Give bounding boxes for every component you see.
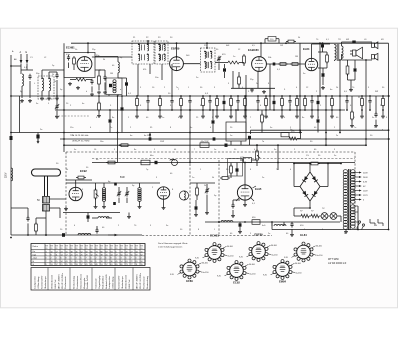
svg-text:EC92: EC92: [80, 169, 87, 173]
svg-text:5k: 5k: [298, 37, 300, 39]
wire bus y132: [11, 132, 302, 134]
svg-text:Wellenbereich: Wellenbereich: [51, 274, 54, 289]
svg-text:14: 14: [61, 255, 63, 257]
svg-text:94: 94: [111, 251, 113, 253]
ladder1 component 11: [236, 95, 239, 111]
capacitor C6: [223, 64, 226, 78]
antenna terminal A: [20, 51, 23, 64]
box R30: [252, 220, 260, 225]
wire mixer out: [92, 57, 132, 70]
svg-text:EL84: EL84: [303, 47, 310, 51]
svg-text:61: 61: [76, 261, 78, 263]
antenna terminal E: [26, 51, 29, 64]
svg-text:2k: 2k: [66, 169, 68, 171]
label 50: [37, 199, 40, 202]
resistor R50: [35, 218, 46, 235]
svg-text:6a-150: 6a-150: [228, 256, 234, 258]
ladder1 component 10: [229, 95, 233, 118]
svg-text:91: 91: [126, 248, 128, 250]
ground FM4: [138, 205, 142, 209]
table upper valve data: [31, 244, 145, 266]
ferrite wires: [46, 199, 66, 228]
ladder1 component 21: [317, 95, 320, 111]
svg-text:EBF89: EBF89: [171, 47, 180, 51]
svg-text:45: 45: [91, 264, 93, 266]
resistor R33: [311, 214, 319, 217]
svg-text:9-35: 9-35: [239, 257, 243, 259]
svg-text:81: 81: [136, 261, 138, 263]
svg-text:72: 72: [131, 261, 133, 263]
tap label 2: [363, 181, 368, 183]
ladder1 component 24: [360, 95, 364, 118]
mains plug: [370, 219, 383, 226]
svg-text:Gegenkopplg.: Gegenkopplg.: [99, 275, 101, 289]
svg-text:240V: 240V: [363, 177, 368, 179]
svg-text:52: 52: [81, 251, 83, 253]
resistor R31: [294, 162, 341, 165]
extra value labels: [14, 37, 388, 235]
ground osc3: [194, 213, 198, 217]
capacitor C4: [90, 79, 93, 92]
osc coil L8: [179, 191, 188, 200]
wire bus y162: [92, 162, 355, 164]
svg-text:1W: 1W: [280, 45, 283, 47]
speaker LS1: [350, 47, 363, 59]
resistor R29: [220, 177, 230, 180]
box R23: [200, 141, 209, 148]
ground osc1: [97, 91, 101, 95]
svg-text:20: 20: [126, 251, 128, 253]
socket EC92: [217, 261, 255, 285]
svg-text:Ratiodetektor: Ratiodetektor: [101, 276, 104, 289]
trimmer C33: [205, 184, 209, 200]
svg-text:66: 66: [91, 251, 93, 253]
svg-text:1M: 1M: [295, 56, 298, 58]
ladder1 component 18: [295, 95, 299, 118]
ferrite coil 2: [43, 205, 50, 212]
svg-text:33: 33: [76, 264, 78, 266]
svg-text:62: 62: [141, 255, 143, 257]
coil L51: [78, 233, 91, 235]
IF can T3: [201, 48, 216, 72]
capacitor C9: [322, 68, 325, 85]
svg-text:220V: 220V: [6, 172, 8, 178]
note right: [328, 259, 347, 265]
wire V4 plate: [312, 44, 331, 58]
svg-text:3W: 3W: [375, 91, 378, 93]
wire v278: [277, 144, 279, 170]
box R40: [281, 131, 295, 137]
wire v270: [269, 64, 271, 110]
trimmer C41: [55, 96, 59, 119]
FM bottom wire: [63, 212, 120, 214]
svg-text:1n: 1n: [162, 117, 164, 119]
svg-text:32: 32: [91, 255, 93, 257]
svg-text:30-100: 30-100: [202, 262, 208, 264]
svg-text:7: 7: [131, 258, 132, 260]
coil L1: [22, 74, 24, 98]
label EL95: [255, 187, 262, 191]
svg-text:9-35: 9-35: [195, 258, 199, 260]
svg-text:EM84: EM84: [279, 280, 287, 284]
svg-text:1k: 1k: [54, 81, 56, 83]
svg-text:Skalenlampe: Skalenlampe: [122, 275, 124, 288]
svg-text:29: 29: [71, 264, 73, 266]
FM box dashed v2: [218, 160, 220, 236]
svg-text:41: 41: [141, 251, 143, 253]
lamp LP2: [330, 213, 337, 220]
svg-text:0: 0: [91, 258, 92, 260]
wire v19: [19, 96, 21, 133]
label 450: [252, 217, 256, 219]
transformer TR1 core: [337, 44, 339, 61]
wire bus y139: [60, 138, 390, 140]
svg-text:91: 91: [71, 248, 73, 250]
svg-text:2k: 2k: [336, 87, 338, 89]
tap label 4: [363, 190, 368, 192]
svg-text:13: 13: [121, 251, 123, 253]
coil L9: [218, 221, 233, 223]
tap label 0: [363, 172, 368, 174]
svg-text:Klangregler: Klangregler: [83, 277, 86, 288]
svg-text:6,3V: 6,3V: [363, 181, 368, 183]
svg-text:9n: 9n: [270, 127, 272, 129]
socket EL84: [284, 233, 322, 262]
capacitor C22: [317, 110, 320, 133]
socket ECH81: [195, 234, 233, 263]
resistor R1: [73, 56, 76, 70]
label block mid: [72, 135, 151, 142]
svg-text:EBF89: EBF89: [254, 233, 263, 237]
wire T3 top: [206, 42, 208, 48]
resistor R41: [289, 130, 301, 140]
svg-text:88: 88: [91, 261, 93, 263]
power transformer TR2: [343, 169, 355, 230]
svg-text:2: 2: [141, 258, 142, 260]
resistor R7: [285, 40, 296, 44]
svg-text:4: 4: [56, 258, 57, 260]
capacitor C3: [67, 55, 70, 68]
IF can T1: [132, 41, 154, 64]
label B1R: [120, 176, 125, 179]
svg-text:20: 20: [71, 255, 73, 257]
svg-text:27: 27: [131, 251, 133, 253]
svg-text:in der Schaltung gemessen: in der Schaltung gemessen: [158, 246, 182, 249]
svg-text:16: 16: [51, 261, 53, 263]
wire ant links: [11, 64, 33, 74]
svg-text:50: 50: [121, 255, 123, 257]
svg-text:70: 70: [81, 261, 83, 263]
svg-text:9-35: 9-35: [263, 275, 267, 277]
svg-text:UKW-ZF 10,7 MHz: UKW-ZF 10,7 MHz: [72, 140, 90, 142]
svg-text:4 Ohm Ausg.: 4 Ohm Ausg.: [112, 276, 115, 289]
pot P2: [94, 183, 99, 205]
label ANT vertical: [6, 172, 8, 178]
svg-text:2: 2: [51, 258, 52, 260]
tap label 3: [363, 186, 366, 188]
svg-text:77: 77: [131, 264, 133, 266]
svg-text:17: 17: [56, 264, 58, 266]
svg-text:Chassis-Masse: Chassis-Masse: [80, 273, 82, 289]
socket EBF89: [239, 233, 277, 262]
ferrite rod bar: [32, 169, 61, 176]
svg-text:3n: 3n: [230, 117, 232, 119]
ladder1 component 0: [135, 95, 139, 118]
speaker jack1: [372, 42, 378, 49]
svg-text:80: 80: [101, 251, 103, 253]
svg-text:61: 61: [111, 264, 113, 266]
svg-text:Tastensatz: Tastensatz: [95, 278, 98, 288]
svg-text:Lautsprecher: Lautsprecher: [108, 276, 111, 289]
capacitor C7: [273, 63, 276, 66]
svg-text:3k: 3k: [103, 59, 105, 61]
pot P3: [256, 144, 261, 166]
mains switch: [357, 221, 365, 230]
ground L2: [40, 97, 44, 101]
wire to mixer: [42, 70, 64, 72]
svg-text:11: 11: [56, 255, 58, 257]
svg-text:9: 9: [46, 264, 47, 266]
osc coupling wire: [95, 57, 118, 63]
svg-text:Ik: Ik: [33, 261, 35, 263]
ground V7a: [243, 200, 247, 207]
ladder1 component 26: [381, 95, 385, 118]
svg-text:25: 25: [56, 261, 58, 263]
ground mixer1: [68, 82, 72, 86]
resistor R24: [106, 161, 117, 164]
ladder1 component 12: [243, 95, 247, 118]
svg-text:4: 4: [101, 258, 102, 260]
tone network: [346, 60, 356, 92]
svg-text:73: 73: [96, 251, 98, 253]
svg-text:3: 3: [46, 251, 47, 253]
svg-text:mit WF 40000 mF: mit WF 40000 mF: [328, 262, 347, 265]
fuse on rail: [265, 37, 279, 44]
diode bridge: [300, 172, 320, 201]
wire can drops: [138, 41, 172, 96]
svg-text:Netzteil 220V: Netzteil 220V: [118, 275, 121, 289]
resistor R21: [350, 96, 354, 128]
svg-text:1: 1: [71, 258, 72, 260]
wire right edge rail: [355, 43, 389, 229]
tube V1 ECH81: [77, 57, 92, 72]
ladder1 component 4: [179, 95, 183, 118]
osc components: [98, 70, 107, 90]
socket EF89: [170, 259, 208, 283]
resistor R3: [215, 61, 244, 64]
svg-text:26: 26: [81, 255, 83, 257]
svg-text:65: 65: [116, 264, 118, 266]
chassis dashed left: [65, 152, 67, 235]
svg-text:36: 36: [111, 261, 113, 263]
wire v326: [325, 96, 327, 145]
table lower boxes: [31, 268, 150, 291]
ladder1 component 8: [215, 95, 219, 118]
capacitor C54: [213, 137, 216, 140]
svg-text:Endstufe EL95: Endstufe EL95: [105, 274, 108, 289]
svg-text:41: 41: [86, 264, 88, 266]
ferrite coil 1: [43, 197, 50, 204]
svg-text:EL84: EL84: [300, 233, 307, 237]
svg-text:UKW-Teil: UKW-Teil: [129, 279, 131, 289]
svg-text:73: 73: [126, 264, 128, 266]
svg-text:6a-150: 6a-150: [317, 255, 323, 257]
svg-text:5: 5: [46, 255, 47, 257]
tube V3 EABC80: [252, 57, 267, 72]
svg-text:56: 56: [131, 255, 133, 257]
svg-text:13: 13: [51, 264, 53, 266]
transformer bottom taps: [353, 206, 358, 230]
wire AVC bus: [11, 95, 390, 97]
ground mixer3: [90, 93, 94, 97]
lamp wires: [294, 208, 341, 222]
ground V3k: [262, 90, 266, 94]
capacitor C21: [212, 110, 215, 133]
svg-text:9-35: 9-35: [170, 274, 174, 276]
svg-text:27: 27: [106, 261, 108, 263]
dial lamp: [170, 159, 178, 165]
svg-text:EABC80: EABC80: [248, 48, 259, 52]
wire v233: [232, 71, 234, 88]
filter stubs: [231, 110, 241, 145]
ground ant1: [20, 99, 24, 103]
svg-text:5: 5: [81, 258, 82, 260]
svg-text:6a-150: 6a-150: [250, 274, 256, 276]
box around V7 parts: [228, 159, 243, 177]
svg-text:44: 44: [111, 255, 113, 257]
capacitor C23: [374, 96, 378, 128]
svg-text:30-100: 30-100: [227, 246, 233, 248]
svg-text:91: 91: [81, 248, 83, 250]
svg-text:91: 91: [51, 248, 53, 250]
svg-text:34: 34: [61, 261, 63, 263]
resistor R6: [290, 63, 300, 66]
tap label 1: [363, 177, 368, 179]
svg-text:127V: 127V: [363, 195, 368, 197]
tap label 6: [363, 199, 365, 201]
ground out1: [321, 86, 325, 90]
svg-text:8: 8: [51, 255, 52, 257]
svg-text:7: 7: [46, 261, 47, 263]
capacitor C35: [231, 200, 240, 218]
svg-text:91: 91: [106, 248, 108, 250]
wire antenna lead: [10, 55, 12, 235]
svg-text:11: 11: [136, 264, 138, 266]
resistor R22: [119, 144, 130, 147]
tube V7 EL95: [236, 185, 256, 201]
svg-text:EL95: EL95: [255, 187, 262, 191]
svg-text:8: 8: [66, 258, 67, 260]
ladder1 component 15: [273, 95, 276, 111]
ladder1 component 6: [201, 95, 205, 118]
svg-text:52: 52: [71, 261, 73, 263]
svg-text:B1R: B1R: [120, 176, 125, 179]
chassis dashed top: [66, 151, 355, 153]
transformer TR1 primary: [335, 44, 337, 61]
svg-text:25: 25: [66, 264, 68, 266]
wire heater bus: [55, 109, 345, 111]
svg-text:5: 5: [126, 258, 127, 260]
trimmer C27: [117, 187, 121, 203]
mixer box: [64, 53, 95, 78]
svg-text:43: 43: [66, 261, 68, 263]
svg-text:Lautsprecher: Lautsprecher: [34, 276, 37, 289]
svg-text:6: 6: [61, 258, 62, 260]
osc coil L12: [118, 62, 119, 78]
svg-text:9-35: 9-35: [284, 257, 288, 259]
svg-text:9: 9: [96, 261, 97, 263]
label EABC80: [248, 48, 259, 52]
svg-text:54: 54: [121, 261, 123, 263]
wire v190: [189, 110, 191, 163]
wire bus y145: [64, 144, 366, 146]
ground mains: [344, 230, 348, 234]
svg-text:4a 11W: 4a 11W: [144, 135, 151, 137]
trimmer C5: [217, 56, 221, 70]
capacitor C31: [87, 213, 90, 223]
svg-text:4W: 4W: [346, 39, 349, 41]
svg-text:1%: 1%: [306, 155, 309, 157]
svg-text:91: 91: [136, 248, 138, 250]
svg-text:4n: 4n: [82, 103, 84, 105]
svg-text:Drehko 2x500: Drehko 2x500: [86, 274, 89, 288]
svg-text:17: 17: [56, 251, 58, 253]
osc coil box: [106, 78, 122, 95]
svg-text:3: 3: [76, 258, 77, 260]
ladder1 component 1: [146, 95, 149, 111]
bridge wires: [294, 163, 328, 208]
svg-text:79: 79: [86, 261, 88, 263]
svg-text:18: 18: [101, 261, 103, 263]
ground osc4: [205, 200, 209, 215]
svg-text:8n: 8n: [302, 117, 304, 119]
wire v246: [245, 75, 247, 133]
svg-text:4 Ohm Ausg.: 4 Ohm Ausg.: [37, 276, 40, 289]
svg-text:1h: 1h: [75, 49, 77, 51]
svg-text:35: 35: [96, 255, 98, 257]
ladder1 component 19: [304, 95, 307, 111]
socket EM84: [263, 260, 301, 284]
table upper text: [33, 245, 143, 266]
svg-text:42R: 42R: [240, 157, 244, 159]
ferrite rod stem: [45, 176, 48, 196]
coil L5: [102, 183, 105, 205]
osc box stubs: [109, 95, 118, 97]
svg-text:6: 6: [116, 251, 117, 253]
svg-text:110V: 110V: [363, 190, 368, 192]
svg-text:7n: 7n: [176, 87, 178, 89]
svg-text:7n: 7n: [110, 127, 112, 129]
table lower text: [34, 273, 149, 289]
svg-text:FM-ZF 10,7MHz: FM-ZF 10,7MHz: [140, 273, 142, 289]
capacitor C34: [236, 163, 239, 177]
svg-text:30-100: 30-100: [295, 263, 301, 265]
svg-text:Roehrensatz: Roehrensatz: [142, 276, 145, 288]
svg-text:91: 91: [76, 248, 78, 250]
svg-text:0: 0: [136, 258, 137, 260]
svg-text:91: 91: [141, 248, 143, 250]
wire V2 top: [176, 42, 178, 57]
ground ferrite: [45, 228, 47, 236]
tube V2 EBF89: [170, 57, 184, 71]
svg-text:0: 0: [46, 258, 47, 260]
capacitor C52: [95, 226, 98, 235]
svg-text:44a 11W: 44a 11W: [201, 141, 209, 143]
svg-text:69: 69: [121, 264, 123, 266]
wire tone bus: [205, 221, 340, 223]
wire v300: [299, 43, 301, 132]
wire y88: [231, 87, 275, 89]
